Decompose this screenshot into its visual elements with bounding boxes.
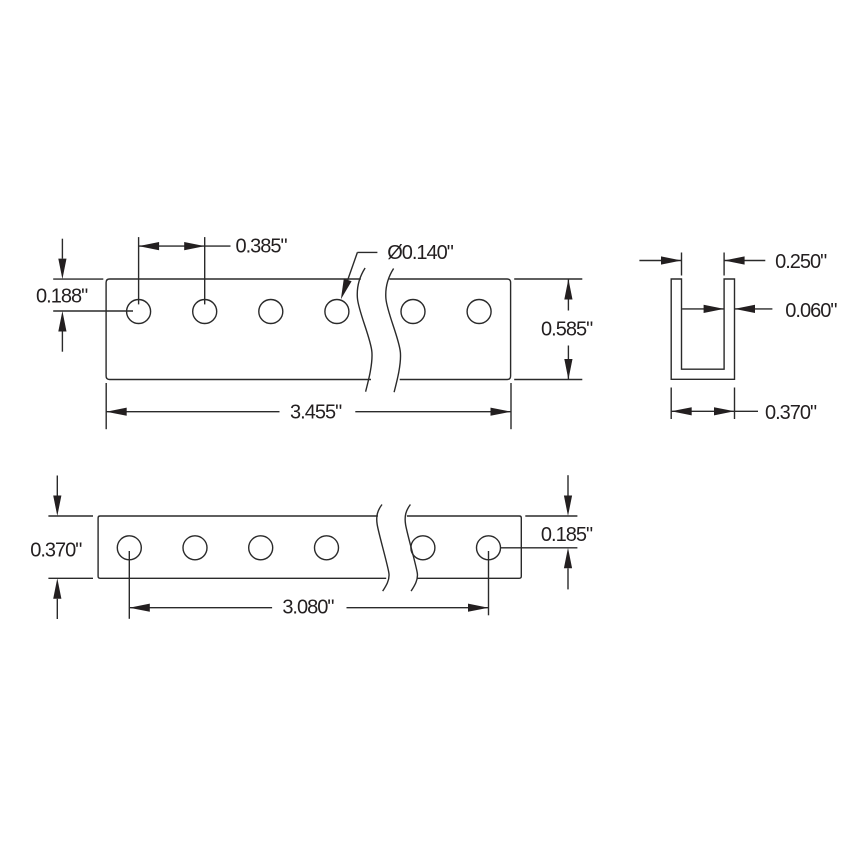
- svg-text:0.188": 0.188": [36, 285, 88, 307]
- dim 0.370 plan bottom extension line: [48, 577, 93, 579]
- dim 0.370 plan lower arrowhead: [53, 578, 61, 599]
- dim 0.185 lower arrowhead: [564, 548, 572, 569]
- dim 0.385 leader to text: [205, 245, 231, 247]
- dim 0.385 right arrowhead: [184, 242, 205, 250]
- dim 3.080 dimension line right segment: [347, 607, 489, 609]
- diameter leader diagonal segment: [342, 252, 357, 295]
- svg-text:0.060": 0.060": [785, 300, 837, 322]
- diameter leader horizontal segment: [357, 251, 377, 253]
- dim 0.585 lower shaft: [567, 346, 569, 380]
- dim 0.250 right arrow line: [724, 260, 765, 262]
- dim 3.455 left arrowhead: [106, 408, 127, 416]
- dim 0.370 plan lower arrow tail: [56, 599, 58, 619]
- dim 3.080 left extension line: [128, 551, 130, 619]
- dim 0.385 dimension line: [139, 245, 205, 247]
- side view outline left portion: [106, 279, 371, 380]
- dim 0.185 upper arrowhead: [564, 496, 572, 517]
- side view hole 2: [193, 300, 217, 324]
- dim 0.250 left arrowhead: [661, 256, 682, 264]
- dim 0.370 end view leader to text: [735, 410, 759, 412]
- svg-text:Ø0.140": Ø0.140": [387, 242, 454, 264]
- dim 0.370 end view right arrowhead: [714, 407, 735, 415]
- dim 3.080 right arrowhead: [468, 604, 489, 612]
- dim 0.250 left arrow line: [639, 260, 681, 262]
- plan view hole 3: [249, 536, 273, 560]
- dim 0.370 plan upper arrowhead: [53, 496, 61, 517]
- dim 0.370 end view right extension line: [734, 388, 736, 420]
- dim 0.188 bottom extension line: [53, 310, 133, 312]
- side view outline right portion: [389, 279, 510, 380]
- plan view break line 1: [377, 505, 389, 592]
- svg-text:3.080": 3.080": [282, 597, 334, 619]
- dim 0.370 end view left arrowhead: [671, 407, 692, 415]
- dim 0.385 left arrowhead: [139, 242, 160, 250]
- plan view hole 4: [315, 536, 339, 560]
- diameter leader arrowhead: [341, 279, 352, 300]
- dim 0.188 upper arrow tail: [61, 239, 63, 259]
- dim 0.185 lower arrow tail: [567, 568, 569, 589]
- dim 0.188 upper arrowhead: [58, 259, 66, 280]
- dim 0.250 right extension line: [723, 253, 725, 276]
- dim 0.585 bottom extension line: [514, 379, 582, 381]
- side view hole 4: [325, 300, 349, 324]
- plan view hole 5: [411, 536, 435, 560]
- svg-text:0.370": 0.370": [30, 540, 82, 562]
- dim 3.455 left extension line: [105, 383, 107, 429]
- dim 3.455 right extension line: [510, 383, 512, 429]
- dim 3.080 right extension line: [488, 551, 490, 615]
- dim 0.585 lower arrowhead: [564, 359, 572, 380]
- plan view hole 2: [183, 536, 207, 560]
- dim 0.185 top extension line: [525, 515, 577, 517]
- plan view outline right portion: [407, 516, 521, 578]
- side view hole 5: [401, 300, 425, 324]
- dim 0.370 plan upper arrow tail: [56, 476, 58, 496]
- side view hole 3: [259, 300, 283, 324]
- dim 0.185 upper arrow tail: [567, 475, 569, 495]
- plan view outline left portion: [98, 516, 386, 578]
- dim 3.455 dimension line left segment: [106, 411, 279, 413]
- svg-text:0.185": 0.185": [541, 524, 593, 546]
- dim 0.385 extension line from hole 1: [138, 237, 140, 304]
- dim 0.060 inner arrowhead: [704, 305, 725, 313]
- dim 0.250 right arrowhead: [724, 256, 745, 264]
- dim 0.060 outer arrowhead: [735, 305, 756, 313]
- svg-text:0.385": 0.385": [236, 236, 288, 258]
- dim 0.185 hole center extension line: [501, 547, 578, 549]
- dim 0.250 left extension line: [681, 253, 683, 276]
- dim 0.385 extension line from hole 2: [204, 237, 206, 304]
- plan view hole 6: [477, 536, 501, 560]
- dim 0.370 end view left extension line: [670, 388, 672, 420]
- end view U channel profile: [671, 279, 734, 379]
- side view break line 1: [357, 268, 372, 392]
- dim 3.080 left arrowhead: [129, 604, 150, 612]
- dim 0.188 top extension line: [53, 278, 103, 280]
- dim 3.080 dimension line left segment: [129, 607, 272, 609]
- dim 3.455 right arrowhead: [491, 408, 512, 416]
- side view hole 6: [467, 300, 491, 324]
- dim 0.585 top extension line: [514, 278, 582, 280]
- side view hole 1: [127, 300, 151, 324]
- dim 0.060 outer arrow line: [735, 308, 773, 310]
- plan view hole 1: [117, 536, 141, 560]
- side view break line 2: [386, 269, 401, 393]
- svg-text:3.455": 3.455": [290, 402, 342, 424]
- dim 0.370 plan top extension line: [48, 515, 93, 517]
- dim 3.455 dimension line right segment: [355, 411, 511, 413]
- svg-text:0.250": 0.250": [775, 251, 827, 273]
- svg-text:0.370": 0.370": [765, 402, 817, 424]
- dim 0.585 upper shaft: [567, 279, 569, 311]
- dim 0.370 end view dimension line: [671, 410, 734, 412]
- dim 0.060 inner arrow line: [682, 308, 724, 310]
- svg-text:0.585": 0.585": [541, 318, 593, 340]
- dim 0.585 upper arrowhead: [564, 279, 572, 300]
- dim 0.188 lower arrow tail: [61, 332, 63, 352]
- plan view break line 2: [405, 505, 417, 592]
- dim 0.188 lower arrowhead: [58, 311, 66, 332]
